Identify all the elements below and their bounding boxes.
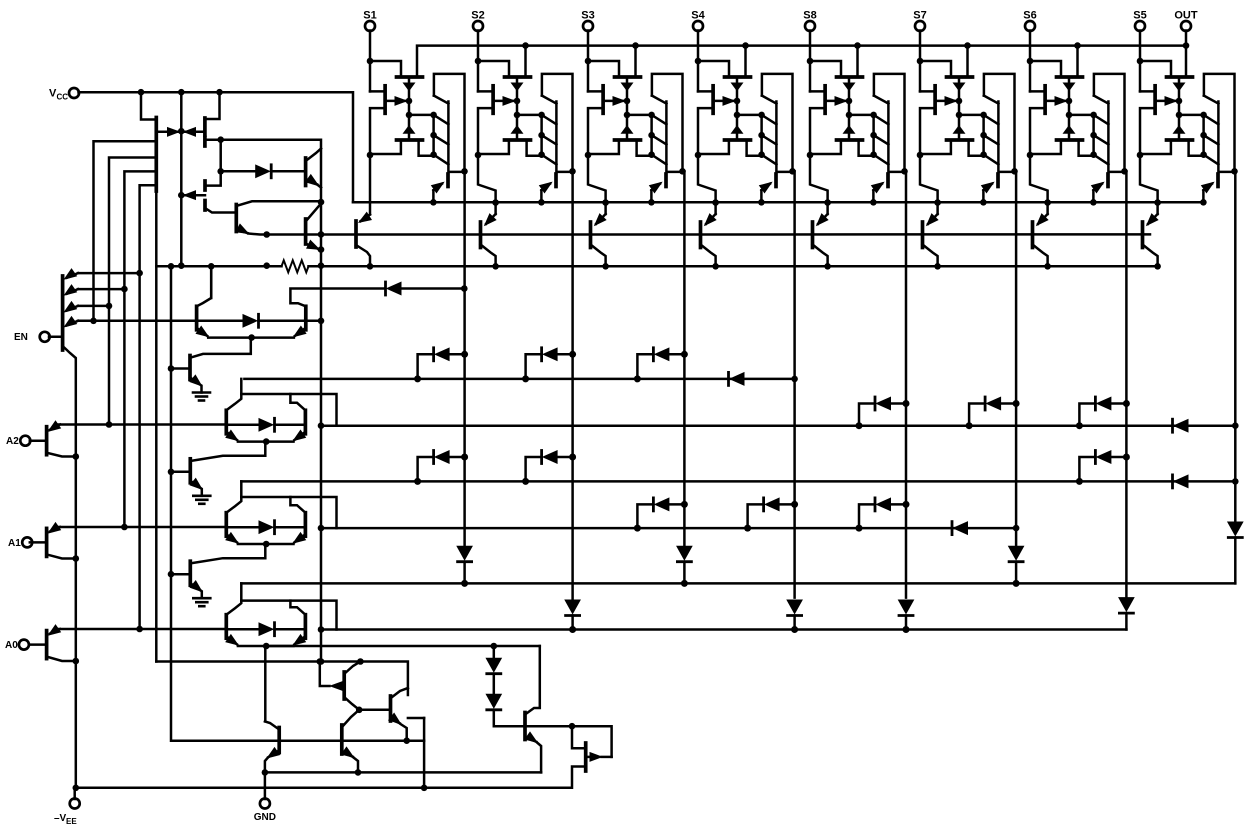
switch cell S2: dot at source node [475,152,482,159]
wire EN row to big vertical [305,320,321,323]
switch cell S6: wire gate from bus [1076,46,1079,77]
switch cell S7: slanted edge [984,96,999,104]
wire node to Q8 [572,726,586,748]
switch cell S3: driver transistor bar [664,174,668,187]
switch cell S5: driver emitter arrow [1202,183,1214,193]
junction dots on top gate bus [522,42,1189,49]
switch cell S1: dot at column [461,168,468,175]
switch cell S1: channel node dots [406,98,413,119]
switch cell S3: wire bottom plate to source [588,140,619,154]
EN input transistor bar [61,276,65,350]
switch cell S3: wire pin to top plate [588,61,619,77]
switch cell S6: slanted edge [1094,96,1109,104]
switch cell S8: wire gate from bus [856,46,859,77]
input transistor A0: collector wire [47,657,76,661]
switch cell S3: gate arrow [603,97,624,106]
bias bar stub 2 [203,138,207,147]
pull-down PNP under cell S1: dot on row [367,263,374,270]
pull-down PNP under cell S2: collector wire [481,245,496,267]
switch cell S6: dot at column [1121,168,1128,175]
pull-down PNP under cell S3: base bar [589,222,593,248]
switch cell S2: driver transistor bar [554,174,558,187]
switch cell S4: slanted edge [762,96,777,104]
switch cell S6: wire bottom plate to tap [1079,140,1094,156]
switch cell S8: JFET top plate [837,75,863,79]
switch cell S4: driver emitter arrow [760,183,772,193]
switch cell S3: hatch 3 [652,155,667,165]
switch cell S2: slanted edge [542,96,557,104]
mirror left emitter arrow [156,128,179,137]
bias bar stub 3 [203,181,207,190]
switch cell S4: JFET bottom plate [725,138,751,142]
input transistor A0: emitter arrow [49,625,61,635]
switch cell S2: wire bottom plate to source [478,140,509,154]
bias NPN QA collector [306,149,321,162]
row end dots [318,376,1239,633]
A0 gate: right transistor bar [304,615,308,639]
switch cell S2: JFET channel [516,77,519,140]
switch cell S3: gate bar [601,86,605,114]
switch cell S8: junction dot at pin column [807,58,814,65]
switch cell S4: wire gate bar to pin lower [698,108,713,155]
bias NPN Q5 collector [236,201,321,206]
PNP4 collector [391,688,408,698]
diode D-bias [221,165,306,178]
pull-down PNP under cell S6: dot emitter on Vcc row [1044,199,1051,206]
column S7 [1015,171,1018,548]
bias PNP2 bar [203,201,207,211]
T1 collector [265,721,279,729]
dot Q6 emitter on vertical [318,231,325,253]
switch cell S3: wire channel to tap [627,114,652,117]
switch cell S5: lower junction diode [1174,126,1185,134]
switch cell S8: upper junction diode [844,83,855,91]
input transistor A1: emitter arrow [49,523,61,533]
switch cell S8: emitter tap vertical [872,115,875,156]
terminal S4 [693,21,703,31]
A1 gate: diode anode wire [226,526,259,529]
switch cell S7: emitter tap dots [980,112,987,158]
diode D17 col S1 down to tier3 row [457,546,472,587]
diode D9 col S1 to tier2 row [414,451,468,485]
switch cell S3: dot on Vcc row [648,199,655,206]
EN emitter 1 arrow [65,269,79,279]
EN sink emitter arrow [190,375,202,386]
mirror center vertical [180,92,183,266]
switch cell S1: hatch 1 [434,115,449,124]
switch cell S1: emitter tap vertical [432,115,435,156]
diode D2 col S2 to EN-bar row [522,348,576,383]
diode D13 col S3 to A1 row [634,498,688,532]
switch cell S4: wire bottom plate to source [698,140,729,154]
svg-text:A0: A0 [5,640,18,651]
wire A2 select line [56,423,227,426]
switch cell S3: wire gate bar to pin lower [588,108,603,155]
wire A0 select line [56,628,226,631]
pull-down PNP under cell S7: dot on row [934,263,941,270]
A2 gate: sink emitter arrow [190,479,202,490]
pull-down PNP under cell S4: collector wire [701,245,716,267]
pull-down PNP under cell S3: emitter arrow [595,214,606,225]
pull-down PNP under cell S1: base bar [354,221,358,247]
switch cell S5: inner collector bar [1218,102,1233,172]
Q7 emitter wire [537,743,541,773]
switch cell S4: dot at source node [695,152,702,159]
terminal S6 [1025,21,1035,31]
terminal S7 label [913,10,926,22]
svg-text:CC: CC [57,93,69,102]
switch cell S5: driver transistor bar [1216,174,1220,187]
switch cell S5: gate arrow [1155,97,1176,106]
switch cell S6: lower junction diode [1064,126,1075,134]
column OUT [1234,171,1237,522]
switch cell S6: JFET channel [1068,77,1071,140]
switch cell S6: gate bar [1043,86,1047,114]
A1 gate: sink stair [192,544,266,563]
column S4 [793,171,796,597]
switch cell S6: dot at source node [1027,152,1034,159]
A2 gate: jog line [241,394,336,426]
switch cell S5: wire driver emitter to Vcc row [1202,190,1205,202]
switch cell S5: outline of lateral device [1204,74,1235,171]
A2 gate: base-base diode [259,418,275,431]
switch cell S4: dot on Vcc row [758,199,765,206]
switch cell S6: wire driver emitter to Vcc row [1092,190,1095,202]
ground symbol A2 [193,489,210,504]
diode D18 col S3 down to tier3 row [677,546,692,587]
bias PNP2 base wire [205,208,236,213]
Q7 bar [523,713,527,740]
stub riser [408,717,424,720]
dot at level diode top [491,643,498,650]
switch cell S1: junction dot at pin column [367,58,374,65]
switch cell S2: wire gate bar to pin lower [478,108,493,155]
row A0 select [321,628,1126,631]
switch cell S1: lower junction diode [404,126,415,134]
EN emitter 2 wire [78,288,124,291]
switch cell S4: wire gate from bus [744,46,747,77]
switch cell S4: outline of lateral device [762,74,793,171]
switch cell S4: wire pin to gate bar top [698,90,713,93]
terminal VCC label [49,88,68,102]
EN emitter 3 arrow [65,302,79,312]
A2 gate: sink base dot [168,469,175,476]
switch cell S6: wire pin to gate bar top [1030,90,1045,93]
switch cell S4: wire driver emitter to Vcc row [760,190,763,202]
mirror left PNP bar [154,118,158,192]
column S3 [683,171,686,546]
pull-down PNP under cell S1: emitter wire [369,155,372,215]
pull-down PNP under cell S8: collector wire [813,245,828,267]
wire bias line 1 [94,141,157,321]
EN sink NPN bar [188,356,192,380]
A1 gate: sink base dot [168,571,175,578]
pull-down PNP under cell S5: dot emitter on Vcc row [1154,199,1161,206]
terminal S1 [365,21,375,31]
switch cell S1: slanted edge [434,96,449,104]
switch cell S2: hatch 1 [542,115,557,124]
svg-text:A2: A2 [6,436,19,447]
mirror right PNP bar [203,118,207,135]
dots on bottom collector bus [318,658,364,665]
switch cell S4: wire channel to tap [737,114,762,117]
wire bias line 2 [109,158,156,425]
switch cell S2: wire pin to gate bar top [478,90,493,93]
terminal S3 label [581,10,594,22]
pull-down PNP under cell S1: collector wire [356,245,370,266]
T1 bar [277,728,281,753]
row analog ground [265,771,541,774]
junction dot base feed [217,136,224,143]
switch cell S8: channel node dots [846,98,853,119]
terminal VCC [69,88,79,98]
switch cell S6: outline of lateral device [1094,74,1125,171]
pull-down PNP under cell S8: emitter arrow [817,214,828,225]
terminal A2 [20,436,30,446]
terminal OUT [1181,21,1191,31]
A2 gate: left transistor bar [224,410,228,434]
row -VEE rail [76,767,586,788]
pull-down PNP under cell S4: dot on row [712,263,719,270]
pull-down PNP under cell S7: collector wire [923,245,938,267]
switch cell S1: driver transistor bar [446,174,450,187]
switch cell S4: emitter tap vertical [760,115,763,156]
EN gate right collector [290,289,384,307]
switch cell S1: wire pin to top plate [370,61,401,77]
switch cell S2: lower junction diode [512,126,523,134]
switch cell S7: JFET top plate [947,75,973,79]
switch cell S6: dot on Vcc row [1090,199,1097,206]
input transistor A0: emitter wire [56,629,60,630]
input transistor A0: base wire [30,643,47,646]
wire diode feed drop [205,140,221,186]
terminal OUT label [1174,10,1198,22]
pull-down PNP under cell S2: dot on row [492,263,499,270]
switch cell S8: hatch 1 [874,115,889,124]
pull-down PNP under cell S2: emitter arrow [485,214,496,225]
svg-text:EE: EE [66,817,77,826]
EN gate: diode cathode wire [259,320,306,323]
diode D7 col S6 to A2 row [1076,397,1130,429]
dot PNP4 emitter [403,737,410,744]
wire Q7 base right [525,726,612,757]
switch cell S7: driver emitter arrow [982,183,994,193]
switch cell S8: slanted edge [874,96,889,104]
switch cell S3: hatch 2 [652,135,667,144]
switch cell S3: wire pin to gate bar top [588,90,603,93]
switch cell S4: hatch 2 [762,135,777,144]
input transistor A2: collector dot [73,453,80,460]
bias NPN Q5 bar [234,205,238,232]
wire GND lead [264,772,267,799]
pull-down PNP under cell S4: base bar [699,222,703,248]
switch cell S8: gate arrow [825,97,846,106]
switch cell S8: outline of lateral device [874,74,905,171]
switch cell S7: wire pin to top plate [920,61,951,77]
pull-down PNP under cell S1: emitter arrow [359,213,371,223]
input transistor A1: emitter wire [56,526,60,529]
switch cell S6: driver transistor bar [1106,174,1110,187]
switch cell S4: dot at column [789,168,796,175]
switch cell S6: driver emitter arrow [1092,183,1104,193]
switch cell S6: hatch 3 [1094,155,1109,165]
dot on S1 column [461,285,468,292]
switch cell S4: hatch 3 [762,155,777,165]
wire long vertical from mirror [155,191,158,662]
wire Vcc feed row [353,201,1203,204]
switch cell S7: wire channel to tap [959,114,984,117]
EN emitter 1 wire [78,272,140,275]
pull-down PNP under cell S8: base bar [811,222,815,248]
svg-text:GND: GND [254,812,276,823]
diode D6 col S7 to A2 row [966,397,1020,429]
switch cell S3: wire bottom plate to tap [637,140,652,156]
EN gate: diode anode wire [197,320,243,323]
input transistor A1: bar [45,528,49,556]
EN emitter 4 arrow [65,317,79,327]
switch cell S6: upper junction diode [1064,83,1075,91]
EN gate: right transistor bar [304,306,308,330]
switch cell S7: JFET channel [958,77,961,140]
dot T2 emitter on gnd row [355,769,362,776]
switch cell S7: lower junction diode [954,126,965,134]
pull-down PNP under cell S3: emitter wire [588,155,606,214]
A0 gate: right collector [290,601,305,615]
A0 gate: left emitter arrow [226,635,238,645]
input transistor A2: collector wire [47,453,76,457]
switch cell S8: wire bottom plate to tap [859,140,874,156]
switch cell S8: wire from pin [809,31,812,92]
switch cell S1: wire bottom plate to tap [419,140,434,156]
switch cell S3: JFET top plate [615,75,641,79]
EN gate to sink stair [191,338,251,358]
wire bias line 4 [140,185,157,629]
switch cell S8: gate bar [823,86,827,114]
switch cell S2: JFET bottom plate [505,138,531,142]
wire diodes to Q7 base [494,710,525,726]
switch cell S2: driver emitter arrow [540,183,552,193]
A1 gate: right emitter arrow [294,533,306,543]
switch cell S5: emitter tap dots [1200,112,1207,158]
switch cell S4: channel node dots [734,98,741,119]
diode D5 col S8 to A2 row [856,397,910,429]
switch cell S5: hatch 3 [1204,155,1219,165]
switch cell S6: emitter tap dots [1090,112,1097,158]
switch cell S8: emitter tap dots [870,112,877,158]
wire A1 select line [56,526,226,529]
A0 gate: common emitter dot [263,643,270,650]
switch cell S6: emitter tap vertical [1092,115,1095,156]
diode D-EN [386,282,402,295]
resistor R1 [282,260,309,272]
wire EN left collector riser [210,266,213,298]
switch cell S1: wire driver emitter to Vcc row [432,190,435,202]
switch cell S6: hatch 1 [1094,115,1109,124]
select line dots [106,421,143,632]
switch cell S2: emitter tap dots [538,112,545,158]
switch cell S7: wire driver emitter to Vcc row [982,190,985,202]
pull-down PNP under cell S7: emitter wire [920,155,938,214]
pull-down PNP under cell S4: dot emitter on Vcc row [712,199,719,206]
wire bias line 3 [124,171,156,527]
diode D14 col S4 to A1 row [744,498,798,532]
switch cell S6: channel node dots [1066,98,1073,119]
diode D8 inline on A2 row [1173,419,1189,432]
switch cell S8: driver transistor bar [886,174,890,187]
switch cell S2: wire bottom plate to tap [527,140,542,156]
A1 gate: sink NPN bar [188,561,192,585]
column S2 [571,171,574,600]
bias NPN Q5 emitter arrow [236,224,248,233]
switch cell S7: driver transistor bar [996,174,1000,187]
pull-down PNP under cell S2: base bar [479,222,483,248]
switch cell S1: JFET bottom plate [397,138,423,142]
switch cell S1: gate arrow [385,97,406,106]
column S8 [905,171,908,597]
switch cell S3: upper junction diode [622,83,633,91]
column S6 [1125,171,1128,597]
pull-down PNP under cell S6: collector wire [1033,245,1048,267]
switch cell S5: wire from pin [1139,31,1142,92]
pull-down PNP under cell S8: dot on row [824,263,831,270]
switch cell S4: gate bar [711,86,715,114]
switch cell S1: wire channel to tap [409,114,434,117]
wire between level diodes [493,646,496,658]
input transistor A1: collector wire [47,554,76,558]
wire EN base [49,336,63,339]
terminal S5 label [1133,10,1146,22]
pull-down PNP under cell S2: emitter wire [478,155,496,214]
switch cell S7: dot at column [1011,168,1018,175]
switch cell S6: inner collector bar [1108,102,1123,172]
switch cell S1: hatch 3 [434,155,449,165]
A2 gate: diode cathode wire [275,424,306,427]
switch cell S3: hatch 1 [652,115,667,124]
terminal A1 [22,537,32,547]
pull-down PNP under cell S3: collector wire [591,245,606,267]
switch cell S5: slanted edge [1204,96,1219,104]
switch cell S5: wire channel to tap [1179,114,1204,117]
pull-down PNP under cell S8: dot emitter on Vcc row [824,199,831,206]
switch cell S8: dot at column [901,168,908,175]
pull-down PNP under cell S2: dot emitter on Vcc row [492,199,499,206]
switch cell S4: lower junction diode [732,126,743,134]
Q7 emitter arrow [525,732,537,742]
input transistor A2: base wire [30,439,47,442]
pull-down PNP under cell S6: emitter arrow [1037,214,1048,225]
input transistor A2: emitter wire [56,425,60,427]
switch cell S4: JFET top plate [725,75,751,79]
A0 gate: jog line [241,601,336,630]
switch cell S5: hatch 1 [1204,115,1219,124]
switch cell S8: wire driver emitter to Vcc row [872,190,875,202]
junction dots on rows [168,199,325,270]
switch cell S5: JFET top plate [1167,75,1193,79]
diode D11 col S6 to tier2 row [1076,451,1130,485]
dot Q8 gate node [569,723,576,730]
switch cell S1: inner collector bar [448,102,463,172]
A1 gate: common emitter wire [238,543,294,546]
switch cell S1: gate bar [383,86,387,114]
T1 emitter arrow [268,748,280,758]
switch cell S2: inner collector bar [556,102,571,172]
diode D3 col S3 to EN-bar row [634,348,688,383]
switch cell S5: channel node dots [1176,98,1183,119]
terminal -VEE label [54,813,77,826]
switch cell S8: lower junction diode [844,126,855,134]
wire sink base vertical [171,266,424,740]
input transistor A0: bar [45,631,49,659]
